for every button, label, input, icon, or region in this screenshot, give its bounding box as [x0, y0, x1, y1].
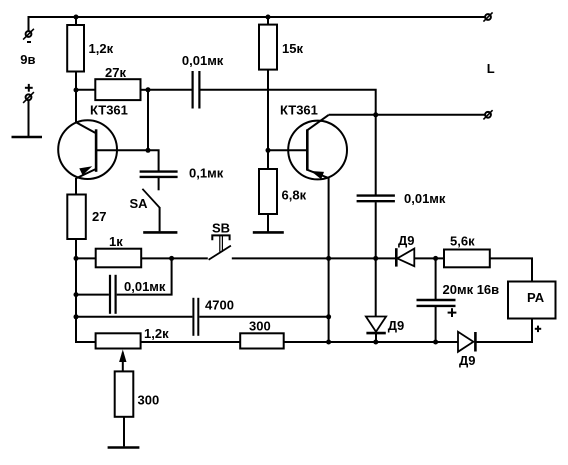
svg-text:PA: PA: [527, 290, 545, 305]
wire 300 to diode VD3: [284, 341, 458, 343]
svg-text:6,8к: 6,8к: [282, 188, 307, 203]
svg-text:0,01мк: 0,01мк: [182, 53, 224, 68]
diode VD1 Д9: [396, 233, 414, 267]
wire plus terminal to ground: [28, 100, 30, 137]
resistor 27к: [76, 89, 95, 91]
wire node B to capacitor C2: [148, 89, 192, 91]
svg-text:15к: 15к: [282, 41, 303, 56]
resistor 300 (vertical): [115, 371, 134, 416]
node F (1к / C3): [169, 256, 174, 261]
svg-text:1,2к: 1,2к: [89, 41, 114, 56]
diode VD3 Д9 (horizontal): [458, 332, 476, 368]
resistor 15к: [267, 17, 269, 25]
resistor 5,6к: [444, 250, 490, 268]
node D (base Q1 / C1): [146, 148, 151, 153]
svg-text:1к: 1к: [109, 234, 123, 249]
node I (20мк / 5,6к): [433, 256, 438, 261]
diode VD2 Д9 (vertical): [366, 258, 404, 342]
svg-text:SB: SB: [212, 220, 230, 235]
node G (emitter rail / 1к wire): [326, 256, 331, 261]
resistor 27: [67, 195, 86, 240]
node left rail / C4700: [74, 314, 79, 319]
capacitor C4 0,01мк: [357, 115, 446, 259]
svg-text:0,1мк: 0,1мк: [189, 166, 224, 181]
svg-text:SA: SA: [130, 196, 149, 211]
resistor 1к: [76, 257, 96, 259]
capacitor 4700: [76, 298, 329, 336]
node J (emitter rail / 4700): [326, 314, 331, 319]
terminal L bottom: [483, 110, 492, 119]
push button SB: [209, 220, 231, 259]
capacitor C1 0,1мк: [140, 166, 224, 181]
node left rail / C3: [74, 292, 79, 297]
wire left rail: [76, 239, 96, 342]
wire C2 to node C: [200, 90, 375, 115]
switch SA: [130, 177, 178, 233]
svg-text:1,2к: 1,2к: [144, 326, 169, 341]
wire 5,6к to PA: [490, 258, 532, 281]
node M (VD2 / bottom wire): [373, 340, 378, 345]
resistor R1 1,2к: [75, 17, 77, 25]
node A (R1/R27k junction): [74, 88, 79, 93]
node C (collector / C4): [373, 112, 378, 117]
svg-text:0,01мк: 0,01мк: [124, 279, 166, 294]
svg-text:27: 27: [92, 209, 106, 224]
wire 300 to ground: [123, 417, 125, 447]
node B: [146, 87, 151, 92]
meter PA: [508, 282, 556, 333]
svg-text:КТ361: КТ361: [90, 102, 128, 117]
svg-text:27к: 27к: [105, 65, 126, 80]
svg-text:300: 300: [138, 393, 160, 408]
resistor 300 (horizontal): [240, 333, 284, 348]
svg-text:Д9: Д9: [398, 233, 415, 248]
svg-text:Д9: Д9: [459, 353, 476, 368]
svg-text:9в: 9в: [20, 52, 35, 67]
svg-text:5,6к: 5,6к: [450, 234, 475, 249]
wire node D to capacitor C1: [148, 150, 159, 171]
terminal plus (battery): [23, 84, 34, 103]
svg-text:КТ361: КТ361: [280, 102, 318, 117]
capacitor C2 0,01мк: [182, 53, 224, 109]
ground (battery): [12, 136, 43, 139]
node N (20мк / bottom wire): [433, 340, 438, 345]
wire SB to diode VD1: [232, 257, 396, 259]
potentiometer 1,2к: [96, 333, 141, 348]
wire node B to node D: [147, 90, 149, 151]
transistor Q1 КТ361: [58, 90, 148, 195]
transistor Q2 КТ361: [268, 115, 347, 342]
terminal L top: [483, 12, 492, 21]
node top rail / R2 15k: [266, 15, 271, 20]
svg-text:20мк 16в: 20мк 16в: [443, 282, 500, 297]
wire VD1 to 5,6к: [414, 257, 444, 259]
wire top rail: [29, 17, 486, 31]
svg-text:4700: 4700: [205, 298, 234, 313]
resistor 6,8к: [267, 150, 269, 169]
ground (6,8к): [253, 231, 284, 234]
node K (emitter rail / bottom wire): [326, 340, 331, 345]
wire Q2 collector to terminal: [329, 114, 485, 116]
wiper arrow: [119, 350, 126, 372]
wire pot to 300: [141, 341, 241, 343]
svg-text:L: L: [487, 61, 495, 76]
node E (base Q2 / 15к / 6,8к): [266, 148, 271, 153]
node left rail / 1к: [74, 256, 79, 261]
svg-text:300: 300: [249, 319, 271, 334]
svg-text:0,01мк: 0,01мк: [404, 191, 446, 206]
capacitor C5 20мк 16в: [417, 258, 500, 342]
node H (C4 / VD1): [373, 256, 378, 261]
svg-text:Д9: Д9: [388, 318, 405, 333]
terminal minus (battery): [23, 29, 34, 42]
wire VD3 to PA: [475, 319, 532, 343]
ground (300): [108, 446, 140, 449]
capacitor C3 0,01мк: [76, 258, 172, 313]
node top rail / R1: [74, 15, 79, 20]
